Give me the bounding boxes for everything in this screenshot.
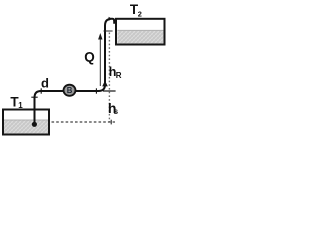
T2 water level tick [104,30,113,32]
flow arrow Q shaft [99,39,101,86]
svg-text:R: R [116,71,122,80]
dashed suction level line [52,121,116,123]
pipe inlet dot [32,122,37,127]
tick left end of horizontal pipe [40,88,42,93]
svg-text:d: d [41,76,49,91]
label hs [108,100,119,116]
svg-text:1: 1 [18,101,23,110]
label hR [109,65,122,80]
svg-text:2: 2 [138,9,142,18]
tick on dashed suction level line [110,120,112,125]
up arrowhead on delivery pipe [102,81,108,87]
vertical dotted reference line [108,33,110,122]
tick on vertical suction pipe [31,96,37,98]
flow arrow Q head [98,33,102,40]
tank T2 walls [116,19,165,45]
pump B [64,85,76,96]
svg-text:B: B [67,86,73,95]
pump level tick line [103,90,116,92]
tank T1 walls [3,110,49,135]
svg-text:Q: Q [84,50,95,65]
label T1 [10,95,23,111]
tank T2 water fill [117,30,164,44]
suction + delivery pipe [35,19,115,125]
tank T1 water fill [4,120,49,135]
tick right end of horizontal pipe [95,88,97,93]
right arrowhead on top pipe [109,17,112,21]
label T2 [130,2,142,19]
svg-text:s: s [114,107,119,116]
